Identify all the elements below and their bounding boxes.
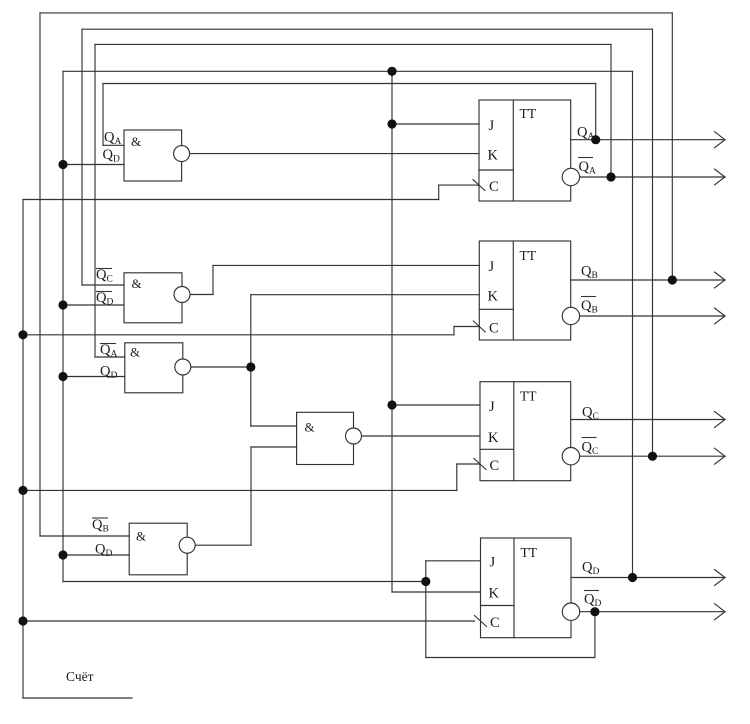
nand gate D3 box — [125, 343, 183, 393]
wire notQD feedback riser — [425, 561, 427, 658]
flip-flop U3 notQ bubble — [562, 448, 579, 465]
flip-flop U4 box — [481, 538, 572, 638]
flip-flop U3 box — [480, 382, 571, 481]
arrow QC — [715, 412, 726, 428]
flip-flop U1 box — [479, 100, 571, 201]
wire QB output to arrow — [571, 279, 725, 281]
flip-flop U1 divider vertical — [512, 100, 514, 201]
svg-text:QA: QA — [579, 159, 596, 177]
wire notQC feedback top horizontal — [82, 28, 653, 30]
flip-flop U4 notQ bubble — [562, 603, 579, 620]
svg-text:QD: QD — [95, 542, 112, 560]
svg-text:K: K — [489, 586, 500, 602]
svg-text:TT: TT — [520, 248, 537, 263]
clock edge slash U1 — [473, 180, 485, 191]
flip-flop U1 notQ bubble — [562, 168, 579, 185]
svg-text:J: J — [489, 259, 495, 275]
nand gate D1 box — [124, 130, 182, 181]
svg-text:TT: TT — [520, 106, 537, 121]
overline notQB output — [581, 296, 596, 298]
wire C input U3 — [457, 463, 480, 465]
svg-text:Счёт: Счёт — [66, 669, 94, 684]
wire notQB input to gate D4 — [40, 535, 129, 537]
wire gate D4 output riser — [250, 447, 252, 545]
svg-text:C: C — [490, 615, 500, 631]
wire gate D3 output to K of U2 — [251, 294, 479, 296]
wire C input U2 — [454, 326, 479, 328]
wire gate D2 output horizontal — [190, 294, 213, 296]
flip-flop U2 divider vertical — [512, 241, 514, 340]
nand gate D5 output bubble — [346, 428, 362, 444]
wire QD input to gate D3 — [63, 376, 125, 378]
svg-text:&: & — [130, 345, 140, 360]
wire gate D5 output to K of U3 — [362, 435, 481, 437]
svg-text:K: K — [488, 289, 499, 305]
junction QD top line — [387, 67, 396, 76]
flip-flop U2 box — [479, 241, 570, 340]
svg-text:K: K — [488, 430, 499, 446]
svg-text:&: & — [136, 529, 146, 544]
wire J input U1 — [392, 123, 479, 125]
wire QD output to arrow — [571, 577, 725, 579]
nand gate D2 output bubble — [174, 287, 190, 303]
wire clock to C of U3 riser — [456, 464, 458, 490]
junction QB output — [668, 275, 677, 284]
wire notQA output to arrow — [580, 176, 725, 178]
svg-text:K: K — [488, 148, 499, 164]
wire gate D4 output to gate D5 input 2 — [251, 446, 297, 448]
svg-text:QD: QD — [96, 290, 113, 308]
flip-flop U3 divider vertical — [513, 382, 515, 481]
wire gate D4 output horizontal — [195, 544, 251, 546]
svg-text:QD: QD — [103, 147, 120, 165]
svg-text:J: J — [490, 555, 496, 571]
svg-text:&: & — [305, 420, 315, 435]
wire notQC input to gate D2 — [82, 284, 124, 286]
wire notQA feedback top horizontal — [95, 43, 611, 45]
junction J U4 tap — [421, 577, 430, 586]
wire QA input to gate D1 — [103, 144, 124, 146]
flip-flop U2 divider C cell — [479, 308, 513, 310]
junction QD to gate D1 — [58, 160, 67, 169]
svg-text:QC: QC — [582, 440, 599, 458]
junction QD to gate D2 — [58, 300, 67, 309]
wire gate D3 output horizontal — [191, 366, 251, 368]
junction J U3 tap — [387, 400, 396, 409]
junction notQC output — [648, 452, 657, 461]
overline notQB gate D4 input — [92, 517, 108, 519]
wire gate D3 output to gate D5 input 1 — [251, 425, 297, 427]
junction QD output — [628, 573, 637, 582]
nand gate D1 output bubble — [174, 146, 190, 162]
wire clock to C of U2 horizontal — [23, 334, 454, 336]
flip-flop U4 divider C cell — [481, 605, 515, 607]
wire J input U4 — [426, 560, 481, 562]
wire notQA feedback vertical — [610, 44, 612, 177]
wire gate D2 output to J of U2 — [213, 264, 479, 266]
wire notQD feedback drop — [594, 612, 596, 658]
arrow QA — [715, 132, 726, 148]
wire QD bus bottom horizontal — [63, 581, 426, 583]
svg-text:QC: QC — [582, 405, 599, 423]
wire gate D2 output riser — [212, 265, 214, 294]
wire QD feedback vertical — [632, 71, 634, 577]
wire QD feedback top horizontal — [63, 70, 633, 72]
wire notQB output to arrow — [580, 315, 725, 317]
nand gate D4 box — [129, 523, 187, 575]
wire clock to C of U1 riser — [438, 185, 440, 199]
wire notQD input to gate D2 — [63, 304, 124, 306]
junction QD to gate D4 — [58, 550, 67, 559]
wire QD input to gate D1 — [63, 164, 124, 166]
wire C input U1 — [439, 184, 479, 186]
nand gate D4 output bubble — [179, 537, 195, 553]
nand gate D2 box — [124, 273, 182, 323]
junction clock to C U3 — [18, 486, 27, 495]
junction J U1 tap — [387, 119, 396, 128]
wire QB feedback vertical — [671, 13, 673, 280]
wire notQD feedback bottom horizontal — [426, 657, 595, 659]
svg-text:QA: QA — [100, 342, 117, 360]
wire clock to C of U3 horizontal — [23, 489, 457, 491]
wire QA feedback top horizontal — [103, 83, 596, 85]
wire clock to C of U1 horizontal — [23, 199, 439, 201]
svg-text:TT: TT — [521, 545, 538, 560]
overline notQC output — [582, 437, 597, 439]
overline notQC gate D2 input — [96, 268, 112, 270]
wire QA feedback vertical — [595, 84, 597, 140]
svg-text:QB: QB — [581, 264, 598, 282]
svg-text:QC: QC — [96, 267, 113, 285]
overline notQA gate D3 input — [100, 343, 116, 345]
junction QD to gate D3 — [58, 372, 67, 381]
svg-text:QA: QA — [104, 130, 121, 148]
clock edge slash U4 — [475, 616, 487, 627]
wire notQD output to arrow — [580, 611, 725, 613]
wire notQC feedback left bus — [81, 29, 83, 285]
junction notQA output — [606, 172, 615, 181]
svg-text:&: & — [131, 134, 141, 149]
wire J input U3 — [392, 404, 480, 406]
svg-text:QB: QB — [581, 298, 598, 316]
wire QB feedback top horizontal — [40, 12, 672, 14]
arrow notQA — [715, 169, 726, 185]
svg-text:C: C — [490, 458, 500, 474]
wire clock bus vertical — [22, 200, 24, 699]
wire clock stub Schet — [23, 697, 132, 699]
svg-text:QA: QA — [577, 125, 594, 143]
junction clock to C U4 — [18, 616, 27, 625]
flip-flop U2 notQ bubble — [562, 307, 579, 324]
overline notQD gate D2 input — [96, 291, 112, 293]
junction notQD output — [590, 607, 599, 616]
svg-text:&: & — [132, 276, 142, 291]
arrow QB — [715, 272, 726, 288]
junction QA output — [591, 135, 600, 144]
wire gate D3 output branch vertical — [250, 295, 252, 426]
overline notQA output — [578, 157, 593, 159]
svg-text:J: J — [489, 399, 495, 415]
wire QC output to arrow — [571, 419, 725, 421]
wire gate D1 output to K of U1 — [190, 153, 479, 155]
wire notQC output to arrow — [580, 455, 725, 457]
junction gate D3 output — [246, 362, 255, 371]
nand gate D3 output bubble — [175, 359, 191, 375]
wire notQA feedback left bus — [94, 44, 96, 357]
flip-flop U4 divider vertical — [513, 538, 515, 638]
overline notQD output — [584, 590, 599, 592]
wire QD input to gate D4 — [63, 554, 129, 556]
flip-flop U3 divider C cell — [480, 448, 514, 450]
nand gate D5 box — [297, 412, 354, 464]
arrow QD — [715, 570, 726, 586]
flip-flop U1 divider C cell — [479, 169, 513, 171]
arrow notQB — [715, 308, 726, 324]
wire QB feedback left bus — [39, 13, 41, 536]
svg-text:QD: QD — [100, 364, 117, 382]
svg-text:QB: QB — [92, 517, 109, 535]
junction clock to C U2 — [18, 330, 27, 339]
wire clock to C of U4 horizontal — [23, 620, 475, 622]
wire QA feedback left bus — [102, 84, 104, 146]
clock edge slash U2 — [473, 321, 485, 332]
svg-text:J: J — [489, 118, 495, 134]
svg-text:QD: QD — [584, 592, 601, 610]
wire QA output to arrow — [571, 139, 725, 141]
wire K input U4 — [392, 591, 481, 593]
svg-text:C: C — [489, 179, 499, 195]
clock edge slash U3 — [474, 459, 486, 470]
arrow notQD — [715, 604, 726, 620]
wire clock to C of U2 riser — [453, 327, 455, 335]
arrow notQC — [715, 448, 726, 464]
svg-text:C: C — [489, 321, 499, 337]
svg-text:TT: TT — [520, 389, 537, 404]
wire notQA input to gate D3 — [95, 356, 125, 358]
svg-text:QD: QD — [582, 560, 599, 578]
wire QD feedback left bus — [62, 71, 64, 581]
wire notQC feedback vertical — [652, 29, 654, 456]
wire QD center vertical — [391, 71, 393, 592]
